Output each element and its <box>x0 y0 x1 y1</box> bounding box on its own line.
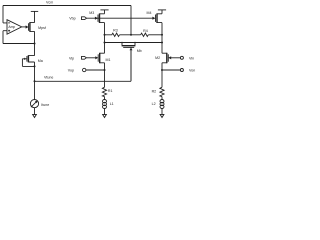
svg-text:Vin: Vin <box>189 57 194 61</box>
node right lower rail junction <box>161 42 163 44</box>
transistor Mpsf <box>26 11 46 43</box>
svg-text:Amp: Amp <box>8 25 15 29</box>
node right output at resistor rail <box>161 34 163 36</box>
port Vop <box>68 68 86 72</box>
power stub Vdd at M3 <box>100 9 108 11</box>
port Vip <box>69 56 86 60</box>
transistor M2 <box>155 53 171 70</box>
node Mpsf source junction <box>34 43 36 45</box>
wire Vtune to Mb gate <box>35 49 132 81</box>
wire L1 to ground <box>104 109 106 116</box>
svg-text:Vip: Vip <box>69 57 74 61</box>
svg-text:Itune: Itune <box>41 103 49 107</box>
inductor L2 <box>152 100 164 109</box>
wire L2 to ground <box>161 109 163 116</box>
node left output at resistor rail <box>104 34 106 36</box>
svg-text:Vbp: Vbp <box>69 17 75 21</box>
svg-text:M4: M4 <box>147 11 152 15</box>
svg-text:Vop: Vop <box>68 69 74 73</box>
svg-text:L1: L1 <box>110 102 114 106</box>
resistor R4 <box>141 29 149 36</box>
svg-text:Mpsf: Mpsf <box>38 26 46 30</box>
inductor L1 <box>103 100 114 109</box>
wire R4 to right column <box>148 34 162 36</box>
node Vop tap <box>104 69 106 71</box>
wire Vop to column <box>86 69 105 71</box>
power stub Vdd at M4 <box>158 9 166 11</box>
node Vcm sense midpoint <box>130 34 132 36</box>
transistor M1 <box>95 53 110 70</box>
port Vbp <box>69 17 86 21</box>
node Von tap <box>161 69 163 71</box>
transistor M3 <box>89 10 104 35</box>
wire lower rail between output columns <box>105 42 163 44</box>
svg-text:Vtune: Vtune <box>44 76 53 80</box>
wire Vbp to M3 and M4 gates <box>87 17 154 19</box>
ground under L2 <box>160 114 164 117</box>
wire R3 to R4 <box>120 34 141 36</box>
svg-text:Ma: Ma <box>38 59 43 63</box>
svg-text:M3: M3 <box>89 11 94 15</box>
node left lower rail junction <box>104 42 106 44</box>
port Von <box>180 69 195 73</box>
port Vin <box>180 56 194 60</box>
wire Vcm vertical drop to R3/R4 midpoint <box>130 6 132 35</box>
svg-text:M1: M1 <box>106 58 111 62</box>
svg-text:Mb: Mb <box>137 49 142 53</box>
wire Vip to M1 gate <box>86 57 96 59</box>
transistor Ma (diode-connected) <box>22 44 42 67</box>
svg-text:R2: R2 <box>152 90 157 94</box>
svg-text:M2: M2 <box>155 56 160 60</box>
wire left drop to op-amp top input <box>3 6 7 23</box>
ground under Itune <box>33 114 37 117</box>
wire op-amp output to Mpsf gate <box>22 26 26 28</box>
svg-text:Vcm: Vcm <box>46 1 53 5</box>
wire feedback from Mpsf source to op-amp bottom input <box>3 31 35 44</box>
svg-text:Von: Von <box>189 69 195 73</box>
svg-text:L2: L2 <box>152 102 156 106</box>
wire M1 source to R1 <box>104 70 106 87</box>
node Ma source junction <box>34 65 36 67</box>
transistor Mb (triode tuning device) <box>121 42 142 81</box>
wire Ma source down to Vtune node <box>34 66 36 81</box>
wire Vin to M2 gate <box>171 57 181 59</box>
wire left column M3 drain to M1 drain <box>104 35 106 53</box>
resistor R3 <box>105 28 120 36</box>
resistor R1 <box>102 87 112 96</box>
wire R1 to L1 <box>104 97 106 100</box>
current source Itune <box>30 81 49 115</box>
wire R2 to L2 <box>161 97 163 100</box>
resistor R2 <box>152 87 165 96</box>
wire right column M4 drain to M2 drain <box>161 35 163 53</box>
transistor M4 <box>147 10 163 35</box>
power stub Vdd at Mpsf <box>31 10 38 12</box>
ground under L1 <box>103 114 107 117</box>
svg-text:R3: R3 <box>113 28 118 32</box>
op-amp Amp <box>7 20 22 34</box>
node Vtune junction <box>34 80 36 82</box>
wire Von to column <box>162 69 180 71</box>
svg-text:R1: R1 <box>108 89 113 93</box>
wire Vcm top rail <box>3 5 131 7</box>
wire M2 source to R2 <box>161 70 163 87</box>
